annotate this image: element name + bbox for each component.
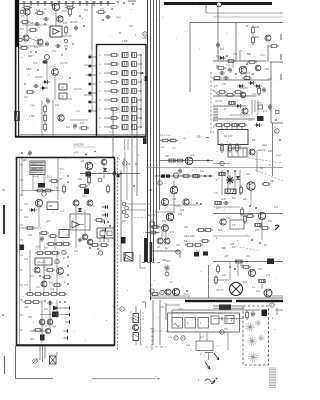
wire vline x272 low: [272, 123, 274, 176]
svg-text:470: 470: [33, 62, 38, 65]
resistor R136: [200, 240, 210, 243]
svg-text:1n5: 1n5: [88, 54, 93, 57]
IC U6 pins: [100, 238, 108, 242]
connector K17: [98, 251, 102, 255]
wire y207 rail: [213, 206, 240, 208]
resistor R130: [150, 226, 160, 229]
resistor R167 vert hatched: [133, 314, 139, 323]
wire y115: [230, 114, 250, 116]
wire gray line y13: [206, 12, 283, 14]
resistor row3 c: [41, 293, 51, 296]
wire top-right thick bar: [164, 2, 272, 5]
IC U2 box: [218, 130, 248, 145]
capacitor C21: [105, 15, 111, 19]
transistor T130: [34, 267, 40, 273]
label D: [246, 24, 248, 28]
label noise r8: [216, 274, 271, 293]
wire vline x236: [235, 23, 237, 62]
wire vline x271: [270, 62, 272, 123]
resistor R164: [42, 276, 52, 279]
wire v x230: [229, 262, 231, 281]
resistor R131: [148, 231, 158, 234]
wire y213 rail: [213, 213, 283, 215]
svg-text:8n2: 8n2: [246, 72, 251, 75]
svg-text:3k3: 3k3: [184, 293, 189, 296]
wire y346 dash: [145, 346, 166, 348]
resistor R151: [49, 180, 59, 183]
node right edge dashes: [280, 34, 282, 80]
label connector note: [73, 145, 95, 148]
node blob edge: [20, 245, 25, 251]
capacitor C113: [228, 67, 232, 73]
label 100: [162, 259, 167, 262]
capacitor C15 top rail: [57, 1, 60, 6]
wire y173 cross: [80, 173, 140, 175]
amplifier U1 box: [50, 26, 62, 37]
label noise c2: [166, 231, 201, 263]
label noise m1: [20, 21, 78, 49]
svg-text:5p6: 5p6: [243, 281, 248, 284]
node top dots: [21, 152, 66, 158]
label y237: [246, 234, 254, 241]
transistor T112: [183, 199, 189, 205]
wire vline x137: [136, 100, 138, 196]
wire tail x42: [42, 346, 44, 362]
wire bus line 2: [150, 0, 152, 300]
resistor R105: [216, 67, 226, 70]
node dot: [150, 189, 152, 191]
wire x200 v: [199, 332, 201, 341]
svg-text:260: 260: [268, 150, 273, 153]
wire y314: [40, 314, 66, 316]
wire y296 stub: [272, 295, 283, 297]
label noise r3: [215, 100, 268, 122]
wire v x136: [135, 306, 137, 345]
resistor R23: [20, 21, 30, 24]
svg-text:120: 120: [24, 258, 29, 261]
node dark block in box: [262, 310, 268, 317]
connector K7: [165, 272, 169, 276]
svg-text:(2) BC238: (2) BC238: [73, 145, 84, 147]
svg-text:0,1µ: 0,1µ: [276, 154, 281, 157]
vertical line x208: [208, 265, 210, 298]
label noise r7: [222, 255, 263, 277]
wire gray y378: [92, 378, 155, 380]
tuner stage row 5 (resistor, trimmer L5): [99, 88, 142, 93]
label in video box: [231, 318, 238, 323]
node squiggle sig: [205, 379, 215, 384]
svg-text:120: 120: [162, 220, 167, 223]
capacitor C22: [55, 44, 61, 48]
svg-text:100n 100n: 100n 100n: [184, 236, 196, 238]
wire bottom corner: [16, 346, 54, 379]
wire v x162: [161, 231, 163, 238]
resistor R149 in box: [246, 310, 249, 320]
resistor R140 hatched: [255, 224, 261, 227]
connector K15: [55, 259, 59, 263]
node squiggle x277: [275, 225, 279, 230]
svg-text:560: 560: [247, 53, 252, 56]
resistor R123 dark pair: [161, 174, 170, 177]
transistor T129: [87, 239, 93, 245]
node bus blob 2: [150, 242, 153, 262]
label +5 top: [27, 153, 30, 156]
wire hook: [124, 152, 126, 160]
node dots 2: [251, 239, 261, 244]
wire v1: [54, 75, 56, 100]
label above tuner marks: [116, 17, 137, 37]
left box outline: [17, 158, 115, 346]
label R13 value: [36, 8, 41, 12]
svg-text:4µ7: 4µ7: [200, 336, 205, 339]
wire v x262 low: [261, 284, 263, 289]
IC U4 table text rows: [31, 163, 44, 173]
wire T4-T5: [29, 38, 37, 41]
wire tuner right column: [140, 55, 142, 127]
resistor R120 pin: [236, 143, 239, 153]
wire y330: [30, 330, 45, 332]
capacitor C13 top rail: [43, 1, 46, 6]
svg-text:1,5B: 1,5B: [29, 114, 35, 118]
svg-text:AF279: AF279: [60, 62, 68, 65]
transistor T138: [101, 159, 107, 165]
wire stub y204: [128, 203, 146, 205]
IC U2 label: [224, 134, 232, 138]
label 1k: [43, 267, 46, 269]
resistor R168 vert hatched: [133, 333, 139, 341]
wire box corner right: [140, 255, 146, 268]
label A: [63, 257, 65, 260]
label 0N: [142, 312, 144, 321]
svg-text:22n: 22n: [36, 286, 41, 289]
resistor R110: [225, 94, 235, 97]
diode D106: [235, 104, 243, 108]
svg-text:0,1µ: 0,1µ: [260, 54, 265, 57]
connector stack a: [122, 202, 126, 206]
node dots x68: [67, 175, 69, 183]
connector K6: [176, 250, 180, 254]
svg-text:100n: 100n: [62, 10, 68, 13]
connector circle K2 on bar: [217, 2, 222, 7]
label 27k: [184, 226, 189, 229]
label noise lb4: [24, 306, 57, 341]
svg-text:2-: 2-: [99, 73, 101, 75]
node dot k: [44, 23, 46, 25]
svg-text:100n: 100n: [175, 205, 181, 208]
svg-text:µ25: µ25: [224, 255, 229, 258]
capacitor C107: [223, 201, 229, 205]
transistor T108: [170, 186, 178, 194]
IC U4 table box: [30, 161, 45, 175]
label d: [46, 97, 48, 100]
resistor R171: [168, 139, 178, 142]
node dark blob NN: [52, 312, 59, 318]
label 10k b: [240, 265, 245, 267]
transistor T118: [220, 219, 226, 225]
wire corner x166: [166, 303, 180, 320]
node left edge pin ticks: [20, 165, 23, 330]
node margin tick: [2, 189, 5, 191]
connector K19: [98, 178, 102, 182]
svg-text:120: 120: [84, 64, 89, 67]
capacitor C104: [268, 104, 272, 110]
diode D114: [237, 84, 245, 88]
IC U2 pins: [222, 145, 240, 151]
wire corner x145: [142, 302, 146, 308]
wire v4: [52, 100, 54, 136]
connector K4: [158, 181, 162, 185]
label 2k2: [165, 155, 170, 158]
wire y160 rail: [160, 160, 210, 162]
wire y347 dashes: [213, 345, 221, 347]
capacitor C111 top rail: [99, 1, 102, 6]
connector K11: [181, 336, 185, 340]
resistor R166: [33, 329, 43, 332]
wire v x140: [140, 310, 142, 345]
capacitor C20: [74, 25, 78, 31]
capacitor C83: [257, 103, 263, 110]
capacitor C106: [150, 220, 155, 226]
resistor R165: [52, 284, 62, 287]
wire vline x132: [131, 100, 133, 258]
wire bus line 3: [153, 0, 155, 262]
wire y280: [213, 279, 229, 281]
resistor row3 b: [33, 293, 43, 296]
svg-text:10k: 10k: [36, 8, 41, 12]
label noise r5: [216, 206, 279, 223]
wire y298 long: [150, 297, 283, 299]
label h: [213, 120, 215, 123]
capacitor C112 pair: [113, 172, 120, 178]
wire y163 stub: [213, 163, 230, 165]
transistor T126: [73, 200, 79, 206]
resistor R25: [96, 11, 106, 14]
module sub-box 1: [172, 318, 183, 329]
transistor T122: [165, 289, 171, 295]
transistor T117: [258, 212, 265, 219]
triangle device Q1: [72, 221, 84, 228]
transistor T103: [255, 65, 261, 71]
node dots bottom: [89, 247, 99, 250]
node dots pair: [227, 170, 236, 172]
transistor T4: [23, 35, 29, 41]
wire y296 left: [150, 295, 190, 297]
wire y205: [160, 204, 200, 206]
resistor R124: [181, 175, 191, 178]
wire y247 dash: [240, 247, 260, 251]
wire vline x190: [189, 23, 191, 93]
svg-text:BC238: BC238: [84, 94, 92, 97]
node dots y291: [186, 290, 188, 292]
transistor T134: [47, 319, 53, 325]
svg-text:120: 120: [168, 336, 173, 339]
resistor row4 a: [23, 301, 33, 304]
resistor R107: [212, 77, 222, 80]
svg-text:1M: 1M: [60, 168, 63, 171]
node filled block: [219, 305, 231, 311]
svg-text:68k 2: 68k 2: [184, 241, 190, 243]
svg-text:560: 560: [28, 316, 33, 319]
label LEB: [29, 114, 35, 118]
resistor R128: [240, 185, 243, 195]
svg-text:N: N: [142, 318, 144, 321]
connector K5: [220, 161, 224, 165]
wire y232: [145, 232, 160, 234]
label noise lb1: [24, 203, 65, 223]
wire left box bottom double: [16, 345, 114, 347]
IC U6 box: [97, 228, 114, 238]
resistor R122: [175, 159, 185, 162]
diode D11: [42, 80, 50, 84]
node mark y356 tick: [56, 352, 58, 356]
connector K18: [123, 161, 127, 165]
resistor R174 vert: [63, 184, 66, 194]
label row2 y147: [161, 147, 176, 150]
svg-text:100n 470: 100n 470: [37, 262, 47, 264]
tuner stage row 7 (resistor, trimmer L7): [99, 106, 142, 111]
deflection coil star 3: [247, 336, 257, 346]
wire net v x56: [55, 11, 57, 26]
label MW: [26, 67, 31, 77]
svg-text:8n2: 8n2: [263, 110, 268, 113]
svg-text:120: 120: [178, 213, 183, 216]
label m: [260, 167, 264, 170]
diode D103: [218, 56, 226, 60]
resistor R22: [79, 127, 89, 130]
wire y106 rail: [213, 105, 246, 107]
capacitor C17 top rail: [71, 1, 74, 6]
resistor R129: [261, 183, 271, 186]
label 10k: [270, 180, 275, 183]
terminal y314: [66, 313, 70, 317]
svg-text:Sintonizzat.: Sintonizzat.: [127, 139, 130, 151]
svg-text:3k3: 3k3: [96, 156, 101, 159]
wire module left border heavy top: [15, 0, 18, 47]
svg-text:3k3: 3k3: [28, 55, 33, 58]
svg-text:µ25: µ25: [46, 220, 51, 223]
resistor row2 a: [35, 252, 45, 255]
transistor T113 dark: [166, 213, 174, 221]
wire stub v 246: [245, 74, 247, 80]
connector K8: [150, 289, 154, 293]
resistor R113 filled: [229, 102, 235, 105]
wire y318 rail: [213, 318, 243, 320]
deflection coil star 5: [248, 352, 258, 362]
wire dashed vline x211: [210, 72, 212, 135]
svg-text:470: 470: [24, 284, 29, 287]
svg-text:AF279: AF279: [74, 88, 82, 91]
wire v x104: [103, 165, 105, 178]
label 4b: [198, 379, 200, 382]
label under pair: [157, 247, 168, 250]
wire thick bar y300 b: [236, 300, 283, 303]
connector K9: [270, 303, 274, 307]
module sub-box 2: [185, 318, 196, 329]
resistor R101 chain: [252, 25, 255, 35]
transistor T104: [240, 92, 246, 98]
resistor R159: [54, 243, 64, 246]
svg-text:8n2: 8n2: [274, 206, 279, 209]
node dot k4: [35, 48, 67, 53]
deflection coil star 1: [245, 322, 255, 332]
label noise lb2: [24, 234, 79, 261]
resistor row4 b: [31, 301, 41, 304]
node pin P3: [88, 74, 96, 77]
transistor T119: [248, 269, 255, 276]
svg-text:4µ7: 4µ7: [256, 290, 261, 293]
svg-text:µ25: µ25: [24, 306, 29, 309]
small box bottom: [196, 341, 213, 351]
svg-text:MW: MW: [26, 67, 31, 71]
wire left stub y90: [213, 90, 220, 96]
node dot k3: [102, 8, 113, 21]
resistor row3 d: [49, 293, 59, 296]
svg-text:µ25: µ25: [248, 119, 253, 122]
wire v x76: [75, 206, 77, 248]
svg-text:AF279: AF279: [35, 76, 43, 79]
wire y119 long: [213, 118, 255, 120]
node cluster x243: [241, 207, 244, 217]
wire x240 stub: [239, 50, 241, 61]
label µ47: [122, 220, 127, 223]
node bus blob 1: [144, 238, 147, 262]
connector stack b: [125, 206, 129, 210]
wire T110 down: [250, 190, 252, 205]
connector K13 speaker: [32, 358, 38, 364]
svg-text:1.5V: 1.5V: [45, 177, 50, 179]
resistor R121 hatched: [169, 159, 175, 162]
diode D110: [29, 208, 37, 212]
svg-text:470: 470: [268, 78, 273, 81]
transistor T127: [87, 200, 93, 206]
tuner box outline: [97, 45, 147, 137]
transistor T120 big: [230, 283, 243, 296]
capacitor C105: [178, 168, 182, 174]
label g: [214, 85, 219, 88]
resistor R16 coil box: [59, 84, 67, 90]
node dark blob t1: [86, 172, 92, 177]
wire antenna drop: [91, 4, 93, 51]
transistor T125: [35, 199, 42, 206]
svg-text:22n: 22n: [165, 155, 170, 158]
svg-text:5p6: 5p6: [64, 45, 69, 48]
svg-text:560: 560: [224, 328, 229, 331]
capacitor C14 top rail: [50, 1, 53, 6]
wire net h y120: [70, 119, 88, 121]
svg-text:22n: 22n: [160, 306, 165, 309]
node dot k2: [79, 15, 85, 27]
resistor R173: [78, 185, 88, 188]
wire v3: [41, 100, 43, 136]
svg-text:2-: 2-: [99, 82, 101, 84]
svg-text:IC 1 P: IC 1 P: [224, 134, 232, 138]
transistor T2: [52, 3, 59, 10]
wire module left border outer: [15, 0, 17, 137]
wire line y22: [190, 22, 283, 24]
svg-text:2k2: 2k2: [30, 338, 35, 341]
label LSB: [196, 136, 201, 139]
label noise m4: [66, 88, 85, 129]
resistor R158: [46, 243, 56, 246]
node tuner right edge blob: [145, 76, 148, 81]
resistor R143 dark on rail: [267, 259, 274, 265]
node dots y276: [39, 275, 45, 278]
wire v x44b: [43, 258, 45, 294]
resistor row3 a: [25, 293, 35, 296]
wire y332 dash right: [213, 331, 228, 333]
node dots rm: [226, 55, 254, 75]
wire margin bar: [3, 205, 5, 234]
